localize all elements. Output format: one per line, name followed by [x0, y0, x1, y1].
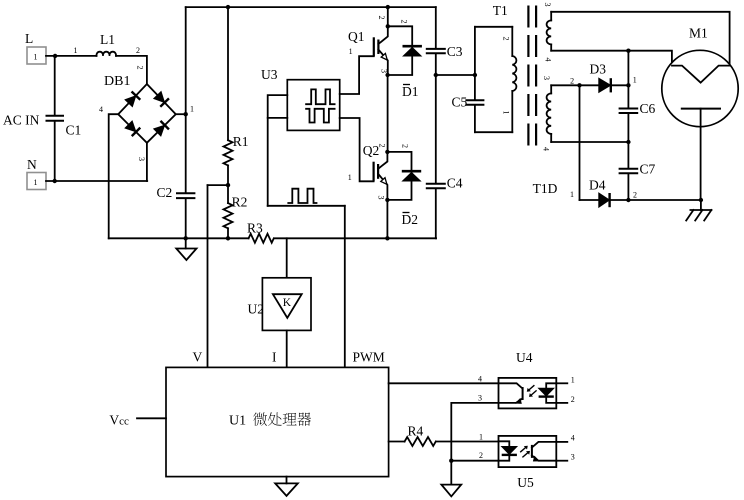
ground under U1 — [286, 477, 288, 484]
wire bottom bus left of R3 — [109, 237, 249, 239]
node bus R2 — [226, 236, 230, 240]
svg-text:1: 1 — [570, 190, 574, 199]
svg-text:1: 1 — [34, 53, 38, 62]
svg-text:1: 1 — [349, 47, 353, 56]
svg-text:3: 3 — [571, 453, 575, 462]
wire U5 pin2 to ground column — [451, 460, 498, 462]
svg-text:AC IN: AC IN — [3, 113, 40, 128]
svg-text:C6: C6 — [640, 101, 656, 116]
svg-text:U5: U5 — [517, 475, 534, 490]
svg-text:2: 2 — [571, 395, 575, 404]
wire Q1 emitter to Q2 collector — [387, 75, 389, 152]
svg-text:1: 1 — [74, 46, 78, 55]
wire tap to V line — [208, 184, 229, 186]
svg-text:1: 1 — [34, 178, 38, 187]
node Q2 emitter D2 — [385, 198, 389, 202]
svg-text:3: 3 — [543, 3, 552, 7]
svg-text:C5: C5 — [452, 95, 468, 110]
wire primary loop top — [475, 26, 512, 28]
node C6 C7 mid — [626, 140, 630, 144]
svg-text:1: 1 — [571, 376, 575, 385]
svg-text:2: 2 — [377, 16, 386, 20]
node bus Q2 emitter — [385, 236, 389, 240]
node T1D pin3 — [577, 83, 581, 87]
svg-text:U2: U2 — [248, 302, 265, 317]
wire T1D pin4 row — [551, 141, 628, 143]
wire U3 left pins — [268, 95, 288, 206]
node Q1 emitter — [385, 73, 389, 77]
U3 waveform bottom — [306, 109, 335, 123]
capacitor C4 — [426, 183, 446, 185]
wire L1 to bridge top — [116, 56, 147, 84]
wire U2 bottom lead — [286, 330, 288, 367]
node Q2 collector — [385, 150, 389, 154]
svg-text:R2: R2 — [232, 195, 248, 210]
U5 LED — [499, 441, 510, 446]
svg-text:2: 2 — [401, 144, 410, 148]
svg-text:1: 1 — [502, 111, 511, 115]
svg-text:T1D: T1D — [533, 181, 558, 196]
svg-text:Q1: Q1 — [348, 29, 365, 44]
U4 phototransistor — [499, 383, 523, 388]
svg-text:U1: U1 — [229, 414, 246, 429]
svg-text:DB1: DB1 — [104, 74, 130, 89]
wire Q2 emitter to bus — [386, 200, 388, 238]
svg-text:Q2: Q2 — [363, 143, 380, 158]
svg-text:Vcc: Vcc — [109, 413, 129, 428]
svg-text:2: 2 — [570, 77, 574, 86]
U4 light arrows — [528, 385, 535, 391]
U5 phototransistor — [531, 445, 533, 458]
svg-text:3: 3 — [542, 76, 551, 80]
svg-text:3: 3 — [137, 157, 146, 161]
svg-text:R1: R1 — [233, 134, 249, 149]
svg-text:L1: L1 — [100, 32, 115, 47]
ground under opto column — [450, 461, 452, 485]
diode D1 — [388, 26, 412, 45]
node rail Q1 — [386, 5, 390, 9]
svg-text:T1: T1 — [493, 3, 508, 18]
ground below C2 — [185, 238, 187, 248]
svg-text:L: L — [25, 31, 33, 46]
svg-text:C3: C3 — [447, 44, 463, 59]
wire U4 pin3 to ground column — [451, 403, 498, 461]
bridge diode top-left — [124, 91, 140, 107]
svg-text:I: I — [272, 350, 277, 365]
bridge diode top-right — [153, 91, 169, 107]
capacitor C7 — [619, 168, 639, 170]
node U5 pin2 ground — [449, 459, 453, 463]
svg-text:K: K — [283, 297, 292, 309]
wire secondary pin4 row — [551, 51, 672, 66]
svg-text:1: 1 — [633, 76, 637, 85]
wire U2 top lead — [286, 238, 288, 277]
capacitor C1 — [54, 56, 56, 115]
node C1 top — [53, 54, 57, 58]
svg-text:D2: D2 — [402, 212, 419, 227]
svg-text:2: 2 — [633, 191, 637, 200]
svg-text:4: 4 — [478, 375, 482, 384]
node D3 cathode — [626, 83, 630, 87]
svg-text:2: 2 — [378, 144, 387, 148]
capacitor C5 — [474, 27, 476, 100]
node cap midpoint — [434, 73, 438, 77]
wire L row — [46, 55, 97, 57]
wire D3 node down to D4 row — [579, 85, 581, 200]
capacitor C3 — [435, 7, 437, 48]
U4 right stubs — [556, 382, 567, 384]
node bus C2 — [184, 236, 188, 240]
svg-text:C2: C2 — [157, 185, 173, 200]
wire top rail — [186, 6, 436, 8]
node C1 bottom — [53, 179, 57, 183]
U5 light arrows — [520, 447, 527, 453]
bridge diode bottom-left — [124, 120, 140, 136]
svg-text:U3: U3 — [261, 67, 278, 82]
microprocessor U1 box — [166, 367, 389, 476]
wire N row — [46, 180, 147, 182]
U5 right stubs — [556, 441, 567, 443]
svg-text:3: 3 — [377, 196, 386, 200]
capacitor C2 column — [185, 7, 187, 193]
svg-text:2: 2 — [136, 66, 145, 70]
node Q1 collector D1 — [386, 24, 390, 28]
wire Vcc lead — [137, 417, 166, 419]
svg-text:D4: D4 — [589, 178, 606, 193]
svg-text:C1: C1 — [66, 123, 82, 138]
wire bridge pin4 down to bus — [109, 114, 119, 238]
pulse waveform symbol — [288, 189, 316, 203]
wire bridge pin1 to C2 column — [176, 113, 186, 115]
wire PWM line — [344, 206, 346, 368]
diode D2 — [387, 152, 411, 170]
resistor R3 — [249, 234, 274, 243]
chassis ground under magnetron — [700, 200, 702, 210]
wire bottom bus right of R3 — [274, 237, 436, 239]
svg-text:PWM: PWM — [353, 350, 385, 365]
svg-text:4: 4 — [99, 105, 103, 114]
svg-text:1: 1 — [190, 105, 194, 114]
svg-text:M1: M1 — [689, 26, 708, 41]
wire V line — [207, 185, 209, 367]
svg-text:4: 4 — [544, 58, 553, 62]
svg-text:3: 3 — [478, 394, 482, 403]
svg-text:1: 1 — [348, 173, 352, 182]
wire U3 right top pin to Q1 gate — [340, 56, 374, 94]
U4 LED — [546, 383, 556, 388]
bridge diode bottom-right — [153, 121, 169, 137]
wire primary loop bottom — [475, 131, 512, 133]
wire bridge pin3 to N row — [146, 143, 148, 181]
svg-text:4: 4 — [571, 434, 575, 443]
resistor R1 — [227, 7, 229, 140]
svg-text:D3: D3 — [590, 62, 607, 77]
node magnetron ground — [699, 198, 703, 202]
wire secondary pin3 to magnetron top — [551, 12, 729, 66]
node rail R1 — [226, 5, 230, 9]
wire U1 to U4 pin4 — [389, 382, 499, 384]
node C5 top — [473, 73, 477, 77]
node bridge pin1 — [184, 112, 188, 116]
svg-text:R3: R3 — [247, 221, 263, 236]
svg-text:R4: R4 — [408, 424, 424, 439]
wire cap midpoint to resonant node — [436, 74, 475, 76]
svg-text:D1: D1 — [402, 84, 419, 99]
svg-text:1: 1 — [479, 433, 483, 442]
svg-text:2: 2 — [400, 20, 409, 24]
wire U3 right bottom pin to Q2 gate — [340, 118, 374, 181]
svg-text:2: 2 — [479, 451, 483, 460]
node C6 top — [626, 49, 630, 53]
node R1 R2 tap — [226, 183, 230, 187]
svg-text:2: 2 — [502, 37, 511, 41]
svg-text:4: 4 — [542, 147, 551, 151]
wire T1D pin3 row — [551, 84, 599, 86]
node D4 cathode — [626, 198, 630, 202]
svg-text:C4: C4 — [447, 176, 463, 191]
svg-text:N: N — [27, 157, 37, 172]
resistor R2 — [227, 185, 229, 203]
capacitor C6 — [627, 51, 629, 108]
svg-text:V: V — [193, 350, 203, 365]
svg-text:C7: C7 — [640, 162, 656, 177]
svg-text:2: 2 — [136, 46, 140, 55]
svg-text:U4: U4 — [516, 350, 533, 365]
wire U3 bottom feedback to PWM — [268, 205, 345, 207]
transformer T1 core — [527, 6, 529, 153]
U3 waveform top — [306, 89, 335, 104]
